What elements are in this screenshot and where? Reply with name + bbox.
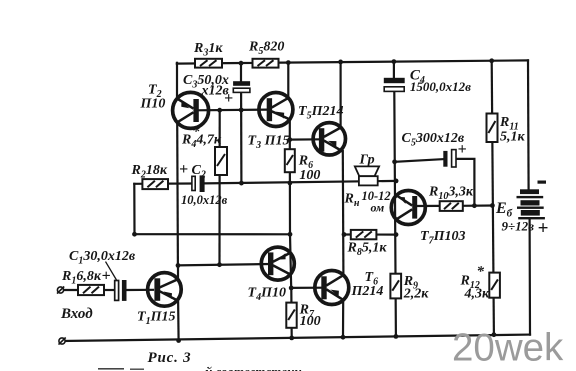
svg-text:R16,8к: R16,8к	[61, 269, 102, 287]
wire C4 top to rail	[393, 62, 395, 78]
wire C5 left lead	[395, 159, 444, 162]
svg-text:Т3 П15: Т3 П15	[248, 134, 290, 152]
wire R4 branch from T2 base node down to T1/T4 base line	[218, 110, 220, 265]
wire R8 line from output node to T7 vertical	[344, 233, 396, 235]
svg-text:4,3к: 4,3к	[464, 286, 491, 301]
wire node B to T5 base	[290, 138, 321, 141]
transistor T7	[391, 191, 425, 225]
node feedback-C3 junction	[239, 181, 244, 186]
node rail-C4 junction	[392, 59, 397, 64]
resistor R4	[215, 147, 227, 175]
leader line C1 label	[106, 262, 117, 280]
svg-text:Вход: Вход	[60, 306, 93, 322]
svg-text:Т5П214: Т5П214	[298, 104, 343, 122]
node feedback-R6 junction	[288, 181, 293, 186]
resistor R9	[390, 274, 401, 299]
svg-text:100: 100	[300, 314, 321, 329]
wire battery top lead	[527, 60, 530, 189]
resistor R12	[489, 273, 500, 298]
wire C2 right plate to speaker and T7 vertical	[205, 181, 397, 184]
svg-text:+: +	[538, 218, 549, 239]
resistor R8	[351, 230, 377, 239]
node ground rail T6 junction	[341, 335, 346, 340]
wire T5 collector to rail	[340, 62, 342, 128]
transistor T1	[148, 273, 182, 307]
node C5-R10 junction	[472, 203, 477, 208]
capacitor C3	[233, 81, 250, 92]
wire R10 to R11 R12 node	[463, 204, 493, 207]
wire T2 emitter down to node A	[176, 122, 179, 265]
svg-text:C130,0х12в: C130,0х12в	[69, 249, 136, 267]
wire C3 top to rail	[240, 63, 242, 81]
node R4 bottom junction	[217, 262, 222, 267]
resistor R7	[286, 303, 296, 328]
svg-text:R85,1к: R85,1к	[347, 241, 388, 259]
capacitor C4	[384, 78, 405, 92]
node R10-R11 junction	[490, 203, 495, 208]
svg-text:R31к: R31к	[193, 41, 223, 59]
wire C5 right lead down to R10 line	[457, 159, 475, 206]
svg-text:+: +	[179, 161, 188, 178]
wire C3 bottom down to feedback line	[240, 93, 242, 184]
node ground rail R9 junction	[394, 334, 399, 339]
svg-text:R103,3к: R103,3к	[428, 185, 474, 203]
wire T2 base to T3 base	[196, 108, 267, 111]
svg-text:C2: C2	[192, 163, 206, 181]
wire node C through R7 to ground rail	[290, 288, 293, 338]
svg-text:*: *	[192, 124, 200, 140]
svg-text:Т4П10: Т4П10	[248, 286, 286, 304]
resistor R11	[487, 114, 498, 143]
svg-text:20wek: 20wek	[452, 327, 564, 370]
svg-text:й соответствии: й соответствии	[205, 364, 302, 371]
node C	[289, 286, 294, 291]
capacitor C5	[443, 150, 456, 167]
svg-text:C5300х12в: C5300х12в	[402, 131, 465, 149]
wire node A to T4 base	[178, 264, 269, 265]
transistor T4	[261, 247, 294, 280]
svg-text:Гр: Гр	[359, 153, 375, 168]
resistor R2	[142, 179, 168, 189]
svg-text:П10: П10	[140, 97, 166, 112]
svg-text:100: 100	[299, 168, 320, 183]
node rail-R11 junction	[489, 58, 494, 63]
node rail-T3 junction	[286, 60, 291, 65]
bottom clipped text faint marks	[98, 368, 144, 370]
svg-text:9÷12в: 9÷12в	[502, 219, 535, 234]
transistor T6	[315, 271, 349, 305]
node base line R4 junction	[217, 108, 222, 113]
svg-text:*: *	[477, 264, 485, 280]
node ground rail R12 junction	[492, 332, 497, 337]
wire C1 to T1 base	[127, 289, 154, 291]
svg-text:10,0х12в: 10,0х12в	[181, 193, 228, 207]
wire T2 collector to rail	[176, 63, 178, 99]
wire top supply rail	[177, 60, 528, 63]
wire R2 left drop	[133, 184, 135, 234]
wire C4 bottom down through T7 chord and R9 to ground rail	[394, 92, 396, 336]
capacitor C2	[192, 175, 205, 192]
svg-text:Rн: Rн	[344, 192, 360, 210]
node base line C3 junction	[239, 108, 244, 113]
resistor R6	[285, 149, 295, 172]
battery E6	[517, 189, 545, 219]
node rail-T5 junction	[338, 60, 343, 65]
svg-text:Т7П103: Т7П103	[420, 229, 465, 247]
node R2 drop corner	[132, 232, 137, 237]
resistor R1	[78, 285, 104, 295]
node R8 output junction	[342, 232, 347, 237]
svg-text:5,1к: 5,1к	[500, 129, 526, 144]
node B T3 emitter junction	[287, 137, 292, 142]
node A	[176, 263, 181, 268]
wire battery bottom lead	[528, 219, 531, 334]
node R8-T7 vertical junction	[394, 232, 399, 237]
wire node B through R6 and T4 chord down to node C	[290, 140, 291, 288]
svg-text:R5820: R5820	[248, 40, 284, 58]
svg-text:2,2к: 2,2к	[403, 286, 430, 301]
svg-text:R44,7к: R44,7к	[181, 133, 222, 151]
svg-text:Т1П15: Т1П15	[137, 310, 175, 328]
svg-text:Еб: Еб	[495, 200, 513, 220]
wire R11 R12 branch from rail to ground rail	[492, 61, 494, 335]
wire T1 emitter to ground rail	[177, 300, 180, 341]
svg-text:+: +	[224, 90, 233, 107]
resistor R3	[195, 59, 222, 68]
svg-text:R218к: R218к	[131, 163, 168, 181]
transistor T5	[313, 123, 345, 155]
wire input terminal to R1	[64, 289, 79, 291]
wire T7 base to R10	[414, 205, 440, 207]
wire T5 emitter to T6 collector output node	[342, 151, 345, 275]
transistor T2	[173, 92, 209, 128]
wire lower tie line to R6 branch	[135, 233, 291, 235]
node feedback-T7 junction	[394, 179, 399, 184]
capacitor C1	[115, 280, 127, 301]
node C5 tap on output vertical	[392, 159, 397, 164]
svg-text:Рис. 3: Рис. 3	[148, 350, 192, 366]
battery minus sign	[538, 181, 547, 184]
wire T3 collector to rail	[287, 63, 289, 99]
node ground rail T1 junction	[176, 338, 181, 343]
resistor R10	[440, 201, 463, 211]
wire T3 emitter down to node B	[289, 119, 291, 139]
node rail-C3 junction	[239, 61, 244, 66]
svg-text:+: +	[458, 141, 467, 158]
wire node C to T6 base	[291, 287, 322, 289]
ground terminal	[59, 338, 66, 345]
wire bottom ground rail	[62, 335, 530, 341]
node tie line R6 junction	[288, 232, 293, 237]
transistor T3	[259, 93, 293, 127]
svg-text:ом: ом	[371, 201, 385, 215]
resistor R5	[253, 59, 279, 68]
wire R1 to C1	[104, 289, 115, 291]
loudspeaker Gr	[355, 166, 379, 185]
node ground rail R7 junction	[289, 336, 294, 341]
wire T6 emitter to ground rail	[342, 300, 344, 337]
svg-text:1500,0х12в: 1500,0х12в	[410, 79, 471, 94]
svg-text:+: +	[102, 268, 111, 285]
wire feedback line from R2 corner to C2 left plate	[134, 182, 192, 185]
wire T1 collector up to node A	[177, 265, 179, 279]
svg-text:П214: П214	[351, 284, 384, 299]
input terminal	[57, 287, 64, 294]
